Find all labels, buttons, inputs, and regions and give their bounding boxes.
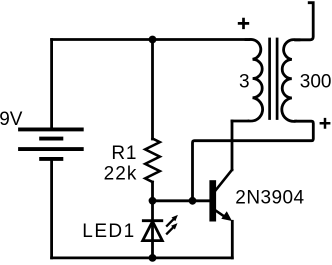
battery B1 xyxy=(18,129,84,159)
led light arrows xyxy=(167,215,178,234)
wire left rail battery positive xyxy=(50,40,53,128)
transformer T1 core xyxy=(270,39,278,119)
wire R1 bottom lead xyxy=(151,182,154,201)
svg-text:2N3904: 2N3904 xyxy=(235,188,304,209)
wire battery negative xyxy=(50,159,53,258)
node feedback junction xyxy=(189,197,197,205)
svg-text:22k: 22k xyxy=(104,163,138,184)
wire feedback from secondary bottom to base xyxy=(193,121,314,201)
transistor Q1 emitter arrow xyxy=(221,211,232,221)
svg-text:3: 3 xyxy=(239,72,250,93)
svg-text:300: 300 xyxy=(300,72,332,93)
transformer T1 secondary winding xyxy=(282,40,299,122)
led LED1 symbol xyxy=(143,221,163,241)
wire emitter vertical xyxy=(231,221,234,258)
transistor Q1 collector lead xyxy=(216,170,233,191)
resistor R1 xyxy=(145,139,160,182)
svg-text:LED1: LED1 xyxy=(82,221,135,242)
transistor Q1 emitter lead xyxy=(216,210,227,218)
svg-text:9V: 9V xyxy=(0,109,23,130)
wire secondary top to output xyxy=(295,3,313,40)
wire R1 top lead xyxy=(151,40,154,140)
transformer T1 primary winding xyxy=(232,39,263,121)
svg-text:R1: R1 xyxy=(111,143,137,164)
polarity plus right xyxy=(320,118,331,129)
node bottom junction xyxy=(149,254,157,262)
transistor Q1 base bar xyxy=(209,180,216,221)
wire bottom rail xyxy=(52,256,233,259)
node base junction xyxy=(149,197,157,205)
node top junction xyxy=(149,36,157,44)
polarity plus top xyxy=(238,18,249,29)
wire LED branch xyxy=(151,201,154,258)
wire base xyxy=(153,199,210,202)
wire collector vertical xyxy=(231,121,234,170)
wire top rail xyxy=(52,38,249,41)
